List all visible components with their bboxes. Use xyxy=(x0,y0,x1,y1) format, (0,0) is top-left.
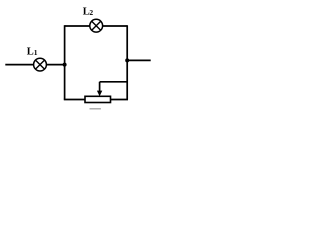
wire: top side of loop xyxy=(65,25,128,27)
wire: rheostat wiper horizontal to right side xyxy=(100,81,128,83)
svg-text:L: L xyxy=(27,46,34,57)
svg-text:2: 2 xyxy=(89,8,93,17)
wire: bottom right segment from rheostat xyxy=(110,99,128,101)
rheostat wiper arrowhead xyxy=(97,91,102,97)
lamp L2 xyxy=(90,19,103,32)
svg-text:1: 1 xyxy=(34,48,38,57)
label L1 xyxy=(27,46,38,57)
wire: L1 branch horizontal xyxy=(5,64,64,66)
wire: right stub from node B xyxy=(127,59,151,61)
label L2 xyxy=(83,6,94,17)
wire: bottom left segment to rheostat xyxy=(64,99,86,101)
lamp L1 xyxy=(34,58,47,71)
resistor body (rheostat box) xyxy=(85,96,111,102)
node A (junction dot, L1 branch to left wire) xyxy=(63,63,67,67)
node B (junction dot, right stub) xyxy=(125,58,129,62)
wire: right side of loop xyxy=(126,25,128,99)
wire: rheostat wiper vertical xyxy=(99,82,101,92)
wire: left side of loop xyxy=(64,25,66,99)
gray underline mark below resistor xyxy=(90,108,101,110)
